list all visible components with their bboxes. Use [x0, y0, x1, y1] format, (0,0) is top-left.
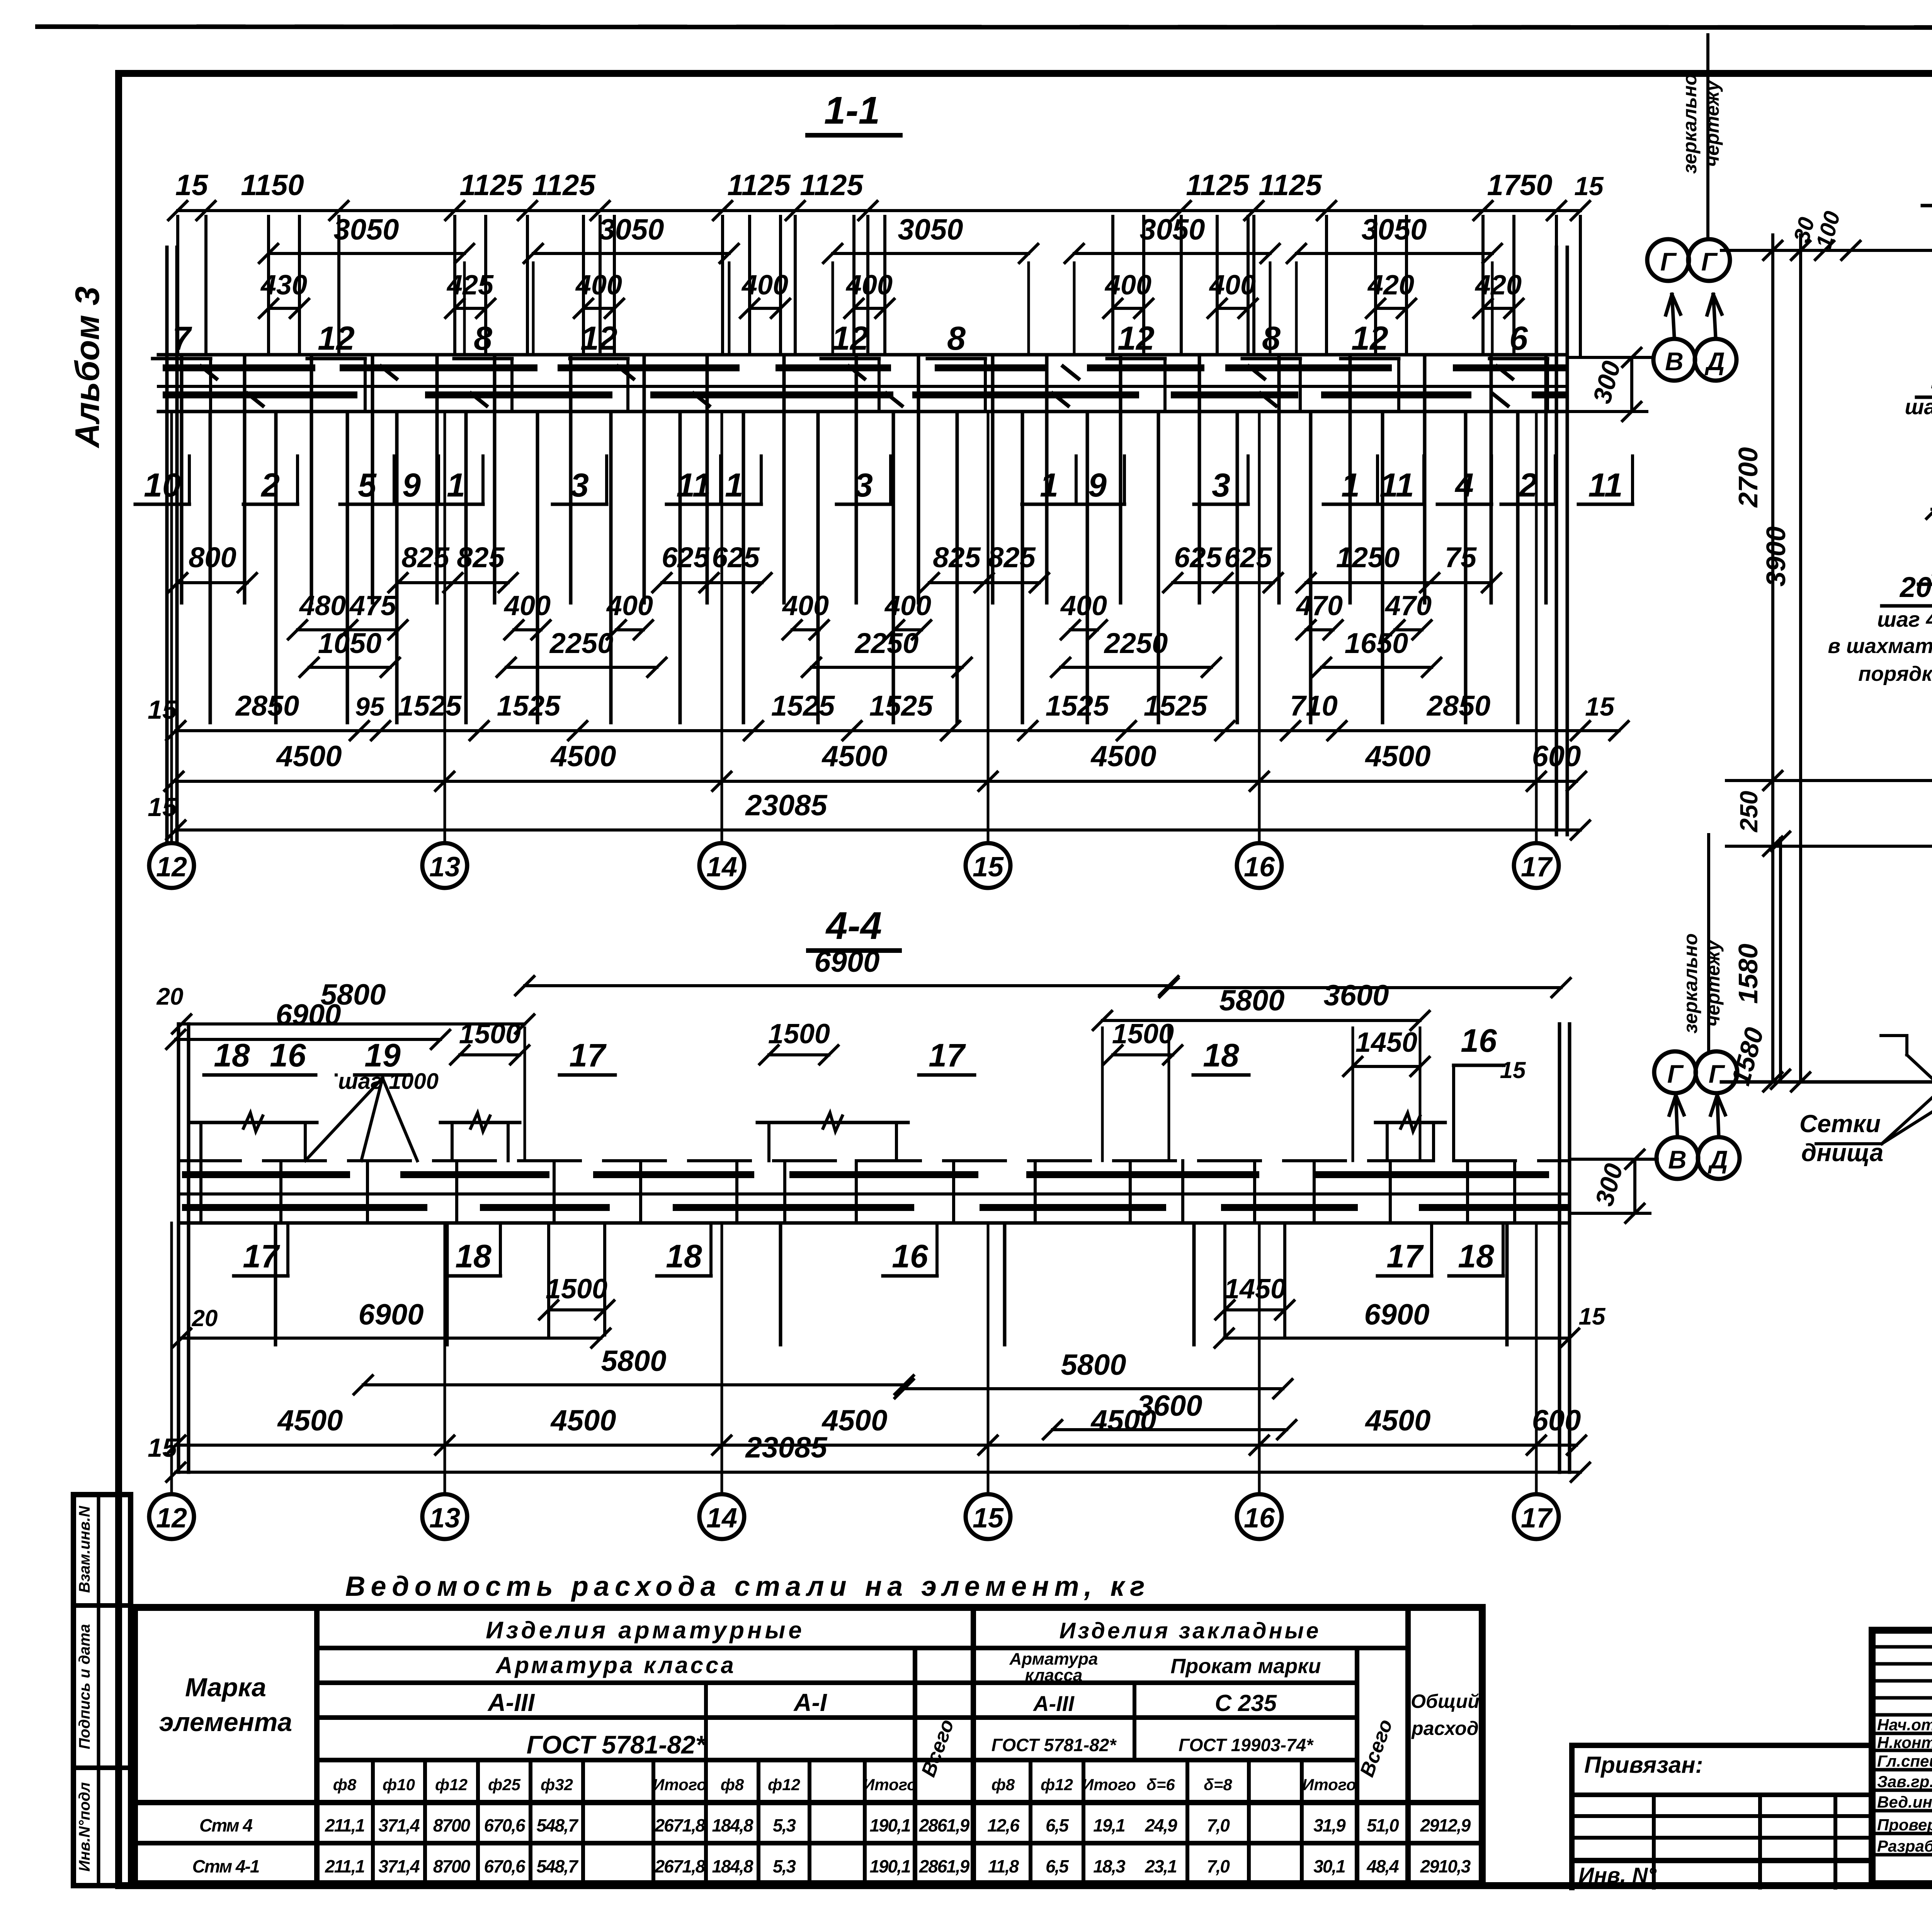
- svg-text:6,5: 6,5: [1046, 1815, 1069, 1835]
- section 4-4 hooks above band: [189, 1121, 317, 1124]
- section 4-4 1500 dims above band: [460, 1053, 520, 1056]
- svg-text:3: 3: [1212, 467, 1230, 504]
- section 1-1 dimension row 400: [269, 307, 299, 310]
- svg-text:4500: 4500: [276, 740, 342, 773]
- svg-text:5800: 5800: [1061, 1349, 1126, 1381]
- svg-text:14: 14: [706, 1503, 737, 1534]
- svg-text:Разраб.: Разраб.: [1877, 1837, 1932, 1855]
- svg-text:Г: Г: [1709, 1060, 1725, 1088]
- svg-text:Инв.N°подл: Инв.N°подл: [76, 1782, 93, 1872]
- section 1-1 band rebar dashes lower: [166, 391, 354, 398]
- svg-text:1250: 1250: [1336, 541, 1400, 573]
- svg-text:18,3: 18,3: [1093, 1856, 1126, 1876]
- svg-text:в шахматном: в шахматном: [1828, 634, 1932, 658]
- svg-text:11: 11: [1588, 467, 1622, 504]
- section 1-1 dimension row 4500: [174, 780, 1577, 783]
- svg-text:Вед.инж: Вед.инж: [1877, 1793, 1932, 1811]
- svg-text:Изделия арматурные: Изделия арматурные: [486, 1617, 805, 1644]
- svg-text:16: 16: [892, 1238, 929, 1274]
- svg-text:8: 8: [474, 320, 492, 357]
- svg-text:1750: 1750: [1487, 169, 1552, 202]
- section 4-4 wall band: [179, 1159, 240, 1162]
- svg-text:ГОСТ 19903-74*: ГОСТ 19903-74*: [1179, 1735, 1314, 1755]
- svg-text:ф10: ф10: [383, 1776, 415, 1794]
- svg-text:1125: 1125: [1259, 169, 1322, 202]
- svg-text:12: 12: [156, 852, 187, 883]
- section 4-4 upper tick verticals: [524, 1028, 526, 1161]
- section 1-1 right edge lines: [1555, 247, 1558, 835]
- section 4-4 1450 dim right: [1353, 1065, 1420, 1068]
- svg-text:30,1: 30,1: [1313, 1856, 1345, 1876]
- svg-text:Марка: Марка: [185, 1673, 266, 1702]
- svg-text:Альбом 3: Альбом 3: [68, 286, 106, 448]
- svg-text:6900: 6900: [1364, 1298, 1429, 1331]
- svg-text:24,9: 24,9: [1145, 1815, 1177, 1835]
- svg-text:8700: 8700: [433, 1815, 471, 1835]
- svg-text:2861,9: 2861,9: [919, 1856, 970, 1876]
- svg-text:порядке: порядке: [1858, 662, 1932, 685]
- svg-text:211,1: 211,1: [325, 1815, 364, 1835]
- svg-text:Провер.: Провер.: [1877, 1816, 1932, 1834]
- svg-text:75: 75: [1445, 541, 1477, 573]
- svg-text:Итого: Итого: [1302, 1776, 1356, 1794]
- svg-text:ф8: ф8: [992, 1776, 1015, 1794]
- svg-text:3050: 3050: [1361, 213, 1427, 246]
- svg-text:15: 15: [1574, 172, 1604, 201]
- section 4-4 arrows to Г circles: [1676, 1095, 1677, 1135]
- svg-text:1125: 1125: [532, 169, 596, 202]
- svg-text:4500: 4500: [1364, 740, 1430, 773]
- svg-text:51,0: 51,0: [1367, 1815, 1399, 1835]
- section 1-1 wall band: [158, 353, 1567, 357]
- svg-text:12: 12: [156, 1503, 187, 1534]
- svg-text:ГОСТ 5781-82*: ГОСТ 5781-82*: [992, 1735, 1117, 1755]
- svg-text:9: 9: [1088, 467, 1107, 504]
- svg-text:δ=6: δ=6: [1146, 1776, 1175, 1794]
- section 4-4 right edge lines: [1558, 1024, 1561, 1472]
- svg-text:Изделия закладные: Изделия закладные: [1060, 1618, 1321, 1643]
- svg-text:4500: 4500: [821, 740, 887, 773]
- svg-text:2861,9: 2861,9: [919, 1815, 970, 1835]
- svg-text:Подпись и дата: Подпись и дата: [76, 1624, 93, 1749]
- svg-text:95: 95: [355, 692, 385, 721]
- svg-text:470: 470: [1384, 590, 1432, 621]
- svg-text:4500: 4500: [1090, 740, 1156, 773]
- section 1-1 left edge lines: [165, 247, 169, 842]
- svg-text:5,3: 5,3: [773, 1815, 796, 1835]
- svg-text:6,5: 6,5: [1046, 1856, 1069, 1876]
- svg-text:2850: 2850: [235, 690, 299, 722]
- svg-text:400: 400: [606, 590, 653, 621]
- svg-text:4500: 4500: [1364, 1404, 1430, 1437]
- svg-text:4500: 4500: [550, 1404, 616, 1437]
- svg-text:2250: 2250: [1104, 627, 1168, 659]
- svg-text:6900: 6900: [276, 998, 341, 1031]
- section 4-4 hanging bars below band: [274, 1223, 277, 1345]
- svg-text:670,6: 670,6: [484, 1856, 526, 1876]
- svg-text:1: 1: [447, 467, 465, 504]
- svg-text:20: 20: [192, 1305, 218, 1331]
- svg-text:825: 825: [401, 541, 450, 573]
- svg-text:1500: 1500: [1112, 1019, 1174, 1049]
- section 4-4 band rebar dashes upper: [185, 1171, 347, 1178]
- svg-text:А-III: А-III: [487, 1689, 535, 1716]
- svg-text:15: 15: [1579, 1303, 1606, 1330]
- svg-text:371,4: 371,4: [378, 1815, 420, 1835]
- svg-text:710: 710: [1290, 690, 1337, 722]
- section 1-1 Г axis circles: [1647, 239, 1689, 281]
- svg-text:11: 11: [1379, 467, 1414, 504]
- svg-text:1450: 1450: [1224, 1274, 1286, 1304]
- section 4-4 band rebar dashes lower: [185, 1204, 424, 1211]
- svg-text:4500: 4500: [277, 1404, 343, 1437]
- svg-text:15: 15: [175, 169, 209, 202]
- svg-text:2671,8: 2671,8: [655, 1856, 706, 1876]
- svg-text:2700: 2700: [1733, 447, 1763, 508]
- svg-text:6900: 6900: [814, 946, 879, 978]
- svg-text:15: 15: [973, 852, 1004, 883]
- svg-text:ф32: ф32: [541, 1776, 573, 1794]
- svg-text:548,7: 548,7: [536, 1856, 579, 1876]
- svg-text:48,4: 48,4: [1366, 1856, 1399, 1876]
- svg-text:2850: 2850: [1426, 690, 1491, 722]
- svg-text:3050: 3050: [898, 213, 963, 246]
- svg-text:12: 12: [1117, 320, 1155, 357]
- svg-text:Всего: Всего: [917, 1716, 959, 1780]
- svg-text:6900: 6900: [358, 1298, 423, 1331]
- svg-text:ф25: ф25: [488, 1776, 521, 1794]
- svg-text:17: 17: [569, 1037, 607, 1073]
- svg-text:300: 300: [1587, 358, 1626, 406]
- svg-text:3050: 3050: [599, 213, 664, 246]
- svg-text:1125: 1125: [1186, 169, 1250, 202]
- svg-text:1525: 1525: [771, 690, 835, 722]
- svg-text:31,9: 31,9: [1313, 1815, 1346, 1835]
- svg-text:Всего: Всего: [1356, 1716, 1397, 1780]
- svg-text:15: 15: [1500, 1057, 1526, 1083]
- svg-text:5800: 5800: [601, 1345, 666, 1378]
- svg-text:Прокат марки: Прокат марки: [1170, 1655, 1321, 1678]
- svg-text:211,1: 211,1: [325, 1856, 364, 1876]
- svg-text:10: 10: [144, 467, 181, 504]
- svg-text:17: 17: [1386, 1238, 1424, 1274]
- svg-text:825: 825: [933, 541, 981, 573]
- svg-text:1150: 1150: [241, 169, 304, 202]
- svg-text:470: 470: [1296, 590, 1343, 621]
- section 2-2 left step lines: [1726, 779, 1932, 782]
- svg-text:16: 16: [1461, 1022, 1497, 1059]
- svg-text:1580: 1580: [1733, 944, 1763, 1004]
- svg-text:4-4: 4-4: [825, 904, 882, 947]
- svg-text:300: 300: [1590, 1160, 1628, 1209]
- svg-text:1125: 1125: [727, 169, 791, 202]
- svg-text:8: 8: [947, 320, 966, 357]
- section 4-4 band crossing bars: [199, 1161, 202, 1223]
- section 1-1 dimension row 1050-2250: [309, 666, 390, 669]
- svg-text:625: 625: [712, 541, 760, 573]
- svg-text:1525: 1525: [869, 690, 934, 722]
- svg-text:19: 19: [364, 1037, 401, 1073]
- svg-text:20: 20: [1899, 571, 1932, 603]
- svg-text:3050: 3050: [1139, 213, 1205, 246]
- привязан box: [1572, 1743, 1872, 1748]
- svg-text:3050: 3050: [333, 213, 399, 246]
- svg-text:ГОСТ 5781-82*: ГОСТ 5781-82*: [527, 1730, 707, 1759]
- section 1-1 В Д axis circles: [1653, 339, 1695, 381]
- svg-text:400: 400: [1060, 590, 1107, 621]
- svg-text:6: 6: [1509, 320, 1528, 357]
- svg-text:625: 625: [1174, 541, 1222, 573]
- section 4-4 lower dimension row 5800: [363, 1383, 904, 1386]
- section 4-4 upper dimension row 6900 center: [525, 984, 1169, 987]
- svg-text:2250: 2250: [549, 627, 614, 659]
- svg-text:4500: 4500: [1090, 1404, 1156, 1437]
- svg-text:Д: Д: [1708, 1145, 1728, 1174]
- svg-text:800: 800: [189, 541, 236, 573]
- section 1-1 dimension row 800-825-625: [178, 581, 247, 584]
- svg-text:Итого: Итого: [653, 1776, 707, 1794]
- svg-text:18: 18: [666, 1238, 702, 1274]
- svg-text:1500: 1500: [459, 1019, 521, 1049]
- title block outer border: [1872, 1630, 1932, 1884]
- svg-text:расход: расход: [1411, 1718, 1479, 1739]
- svg-text:ф12: ф12: [435, 1776, 468, 1794]
- svg-text:7,0: 7,0: [1207, 1856, 1230, 1876]
- svg-text:Сетки: Сетки: [1799, 1110, 1881, 1138]
- svg-text:17: 17: [929, 1037, 966, 1073]
- section 1-1 right 300 dimension: [1567, 356, 1653, 359]
- section 1-1 axis circles: [149, 843, 194, 888]
- svg-text:9: 9: [402, 467, 421, 504]
- steel table column lines: [314, 1607, 320, 1884]
- section 1-1 band rebar dashes upper: [166, 364, 312, 371]
- svg-text:ф12: ф12: [768, 1776, 800, 1794]
- section 4-4 upper dimension row 5800 right: [1169, 986, 1561, 989]
- svg-text:1: 1: [725, 467, 743, 504]
- svg-text:14: 14: [706, 852, 737, 883]
- svg-text:Итого: Итого: [863, 1776, 917, 1794]
- svg-text:15: 15: [973, 1503, 1004, 1534]
- svg-text:3900: 3900: [1761, 526, 1791, 587]
- svg-text:шаг 1000: шаг 1000: [1905, 395, 1932, 419]
- svg-text:3: 3: [570, 467, 589, 504]
- svg-text:12,6: 12,6: [987, 1815, 1020, 1835]
- svg-text:зеркально: зеркально: [1680, 933, 1701, 1033]
- svg-text:19: 19: [1931, 361, 1932, 395]
- svg-text:Итого: Итого: [1082, 1776, 1136, 1794]
- section 4-4 1580 dimension chain: [1779, 838, 1782, 1082]
- svg-text:400: 400: [503, 590, 551, 621]
- section 2-2 left dimension chains: [1771, 235, 1774, 1082]
- svg-text:шаг 400: шаг 400: [1877, 607, 1932, 631]
- svg-text:1525: 1525: [497, 690, 561, 722]
- svg-text:23085: 23085: [745, 789, 828, 822]
- sections ground line: [1721, 1080, 1932, 1084]
- svg-text:600: 600: [1532, 1404, 1581, 1437]
- svg-text:400: 400: [782, 590, 829, 621]
- svg-text:ф8: ф8: [333, 1776, 357, 1794]
- svg-text:825: 825: [988, 541, 1036, 573]
- svg-text:2912,9: 2912,9: [1420, 1815, 1471, 1835]
- section 1-1 upper verticals: [176, 216, 179, 355]
- section 1-1 band anchor hooks: [201, 366, 216, 379]
- title block signature grid: [1872, 1645, 1932, 1649]
- svg-text:15: 15: [148, 695, 177, 724]
- svg-text:670,6: 670,6: [484, 1815, 526, 1835]
- section 1-1 3050 tick verticals: [267, 263, 270, 355]
- svg-text:8700: 8700: [433, 1856, 471, 1876]
- svg-text:1650: 1650: [1345, 627, 1408, 659]
- section 4-4 left edge lines: [177, 1024, 180, 1472]
- svg-text:12: 12: [832, 320, 869, 357]
- svg-text:250: 250: [1735, 791, 1763, 833]
- svg-text:400: 400: [884, 590, 931, 621]
- svg-text:11,8: 11,8: [988, 1856, 1019, 1876]
- svg-text:184,8: 184,8: [712, 1815, 753, 1835]
- svg-text:Г: Г: [1667, 1060, 1684, 1088]
- section 2-2 foundation step: [1881, 1034, 1907, 1037]
- svg-text:ф8: ф8: [721, 1776, 744, 1794]
- svg-text:1450: 1450: [1355, 1027, 1417, 1058]
- section 1-1 dimension row 3050: [269, 252, 464, 255]
- svg-text:Д: Д: [1704, 347, 1725, 376]
- svg-text:7: 7: [172, 320, 192, 357]
- svg-text:1125: 1125: [459, 169, 523, 202]
- svg-text:Зав.гр.: Зав.гр.: [1877, 1772, 1932, 1791]
- svg-text:Общий: Общий: [1411, 1690, 1480, 1712]
- svg-text:7,0: 7,0: [1207, 1815, 1230, 1835]
- svg-text:16: 16: [1244, 852, 1275, 883]
- svg-text:элемента: элемента: [159, 1708, 292, 1737]
- svg-text:Инв. N°: Инв. N°: [1578, 1863, 1656, 1887]
- section 1-1 dimension row 480-475-400: [298, 628, 398, 631]
- section 1-1 dimension row 1125: [178, 209, 1580, 212]
- section 4-4 1500 dims below band: [549, 1308, 605, 1311]
- svg-text:17: 17: [1521, 852, 1553, 883]
- svg-text:12: 12: [580, 320, 617, 357]
- svg-text:600: 600: [1532, 740, 1581, 773]
- svg-text:8: 8: [1262, 320, 1281, 357]
- sections top line: [1721, 249, 1932, 252]
- section 4-4 В Д axis circles: [1656, 1137, 1698, 1179]
- svg-text:Гл.спец.: Гл.спец.: [1877, 1752, 1932, 1770]
- svg-text:3600: 3600: [1323, 979, 1389, 1012]
- svg-text:5800: 5800: [1219, 984, 1284, 1017]
- svg-text:Стм 4-1: Стм 4-1: [192, 1856, 259, 1876]
- svg-text:17: 17: [1521, 1503, 1553, 1534]
- svg-text:15: 15: [1585, 692, 1615, 721]
- svg-text:625: 625: [1224, 541, 1272, 573]
- svg-text:А-III: А-III: [1032, 1691, 1075, 1716]
- svg-text:475: 475: [349, 590, 396, 621]
- svg-text:1580: 1580: [1726, 1024, 1770, 1088]
- svg-text:18: 18: [214, 1037, 250, 1073]
- section 1-1 axis lines: [170, 412, 173, 843]
- svg-text:371,4: 371,4: [378, 1856, 420, 1876]
- svg-text:19,1: 19,1: [1093, 1815, 1125, 1835]
- svg-text:16: 16: [1244, 1503, 1275, 1534]
- svg-text:δ=8: δ=8: [1204, 1776, 1232, 1794]
- left margin strip: [71, 1495, 76, 1886]
- svg-text:Ведомость расхода стали на: Ведомость расхода стали на элемент, кг: [345, 1571, 1150, 1602]
- svg-text:480: 480: [299, 590, 346, 621]
- svg-text:2: 2: [1518, 467, 1537, 504]
- svg-text:2671,8: 2671,8: [655, 1815, 706, 1835]
- svg-text:625: 625: [662, 541, 710, 573]
- steel table header row lines: [317, 1646, 1408, 1650]
- svg-text:ф12: ф12: [1041, 1776, 1073, 1794]
- section 4-4 upper dimension row 3600 right: [1102, 1019, 1420, 1022]
- svg-text:13: 13: [429, 1503, 460, 1534]
- svg-text:15: 15: [148, 793, 177, 822]
- svg-text:1-1: 1-1: [824, 89, 880, 132]
- svg-text:23085: 23085: [745, 1431, 828, 1464]
- svg-text:13: 13: [429, 852, 460, 883]
- svg-text:класса: класса: [1025, 1666, 1083, 1685]
- svg-text:2910,3: 2910,3: [1420, 1856, 1471, 1876]
- svg-text:5,3: 5,3: [773, 1856, 796, 1876]
- svg-text:1525: 1525: [1046, 690, 1110, 722]
- svg-text:Взам.инв.N: Взам.инв.N: [76, 1505, 93, 1593]
- svg-text:Г: Г: [1660, 247, 1677, 276]
- svg-text:18: 18: [1203, 1037, 1239, 1073]
- svg-text:825: 825: [457, 541, 505, 573]
- svg-text:1500: 1500: [768, 1019, 830, 1049]
- svg-text:В: В: [1665, 347, 1684, 376]
- svg-text:18: 18: [455, 1238, 492, 1274]
- svg-text:чертежу: чертежу: [1701, 80, 1723, 167]
- steel table outer border: [134, 1607, 1482, 1884]
- svg-text:23,1: 23,1: [1145, 1856, 1177, 1876]
- svg-text:Стм 4: Стм 4: [199, 1815, 252, 1835]
- sheet outer border top line: [37, 27, 1932, 28]
- svg-text:1525: 1525: [1144, 690, 1208, 722]
- svg-text:Г: Г: [1701, 247, 1718, 276]
- section 4-4 lower dimension row 3600: [1053, 1428, 1287, 1431]
- svg-text:Арматура класса: Арматура класса: [495, 1652, 736, 1678]
- svg-text:190,1: 190,1: [869, 1856, 910, 1876]
- svg-text:16: 16: [270, 1037, 306, 1073]
- svg-text:В: В: [1668, 1145, 1687, 1174]
- section 4-4 axis circles: [149, 1494, 194, 1539]
- svg-text:184,8: 184,8: [712, 1856, 753, 1876]
- section 4-4 Г axis circles: [1654, 1051, 1696, 1093]
- svg-text:18: 18: [1458, 1238, 1494, 1274]
- svg-text:20: 20: [156, 983, 184, 1010]
- svg-text:Привязан:: Привязан:: [1584, 1752, 1703, 1778]
- section 4-4 right 300 dimension: [1570, 1158, 1657, 1161]
- svg-text:зеркально: зеркально: [1679, 73, 1701, 173]
- section 4-4 upper dimension row 6900 left low: [176, 1038, 440, 1041]
- svg-text:4500: 4500: [550, 740, 616, 773]
- section 4-4 dimension row 4500: [176, 1444, 1577, 1447]
- svg-text:1525: 1525: [398, 690, 462, 722]
- svg-text:2250: 2250: [854, 627, 919, 659]
- svg-text:12: 12: [318, 320, 355, 357]
- svg-text:12: 12: [1351, 320, 1388, 357]
- svg-text:190,1: 190,1: [869, 1815, 910, 1835]
- svg-text:чертежу: чертежу: [1702, 939, 1724, 1027]
- section 1-1 arrows to Г circles: [1672, 294, 1674, 337]
- svg-text:1500: 1500: [546, 1274, 607, 1304]
- svg-text:1: 1: [1040, 467, 1058, 504]
- section 1-1 rebar verticals below band: [180, 355, 184, 603]
- svg-text:1125: 1125: [800, 169, 864, 202]
- svg-text:4500: 4500: [821, 1404, 887, 1437]
- section 4-4 upper dimension row 5800 left: [182, 1022, 525, 1026]
- svg-text:Н.контр.: Н.контр.: [1877, 1733, 1932, 1752]
- svg-text:1050: 1050: [318, 627, 382, 659]
